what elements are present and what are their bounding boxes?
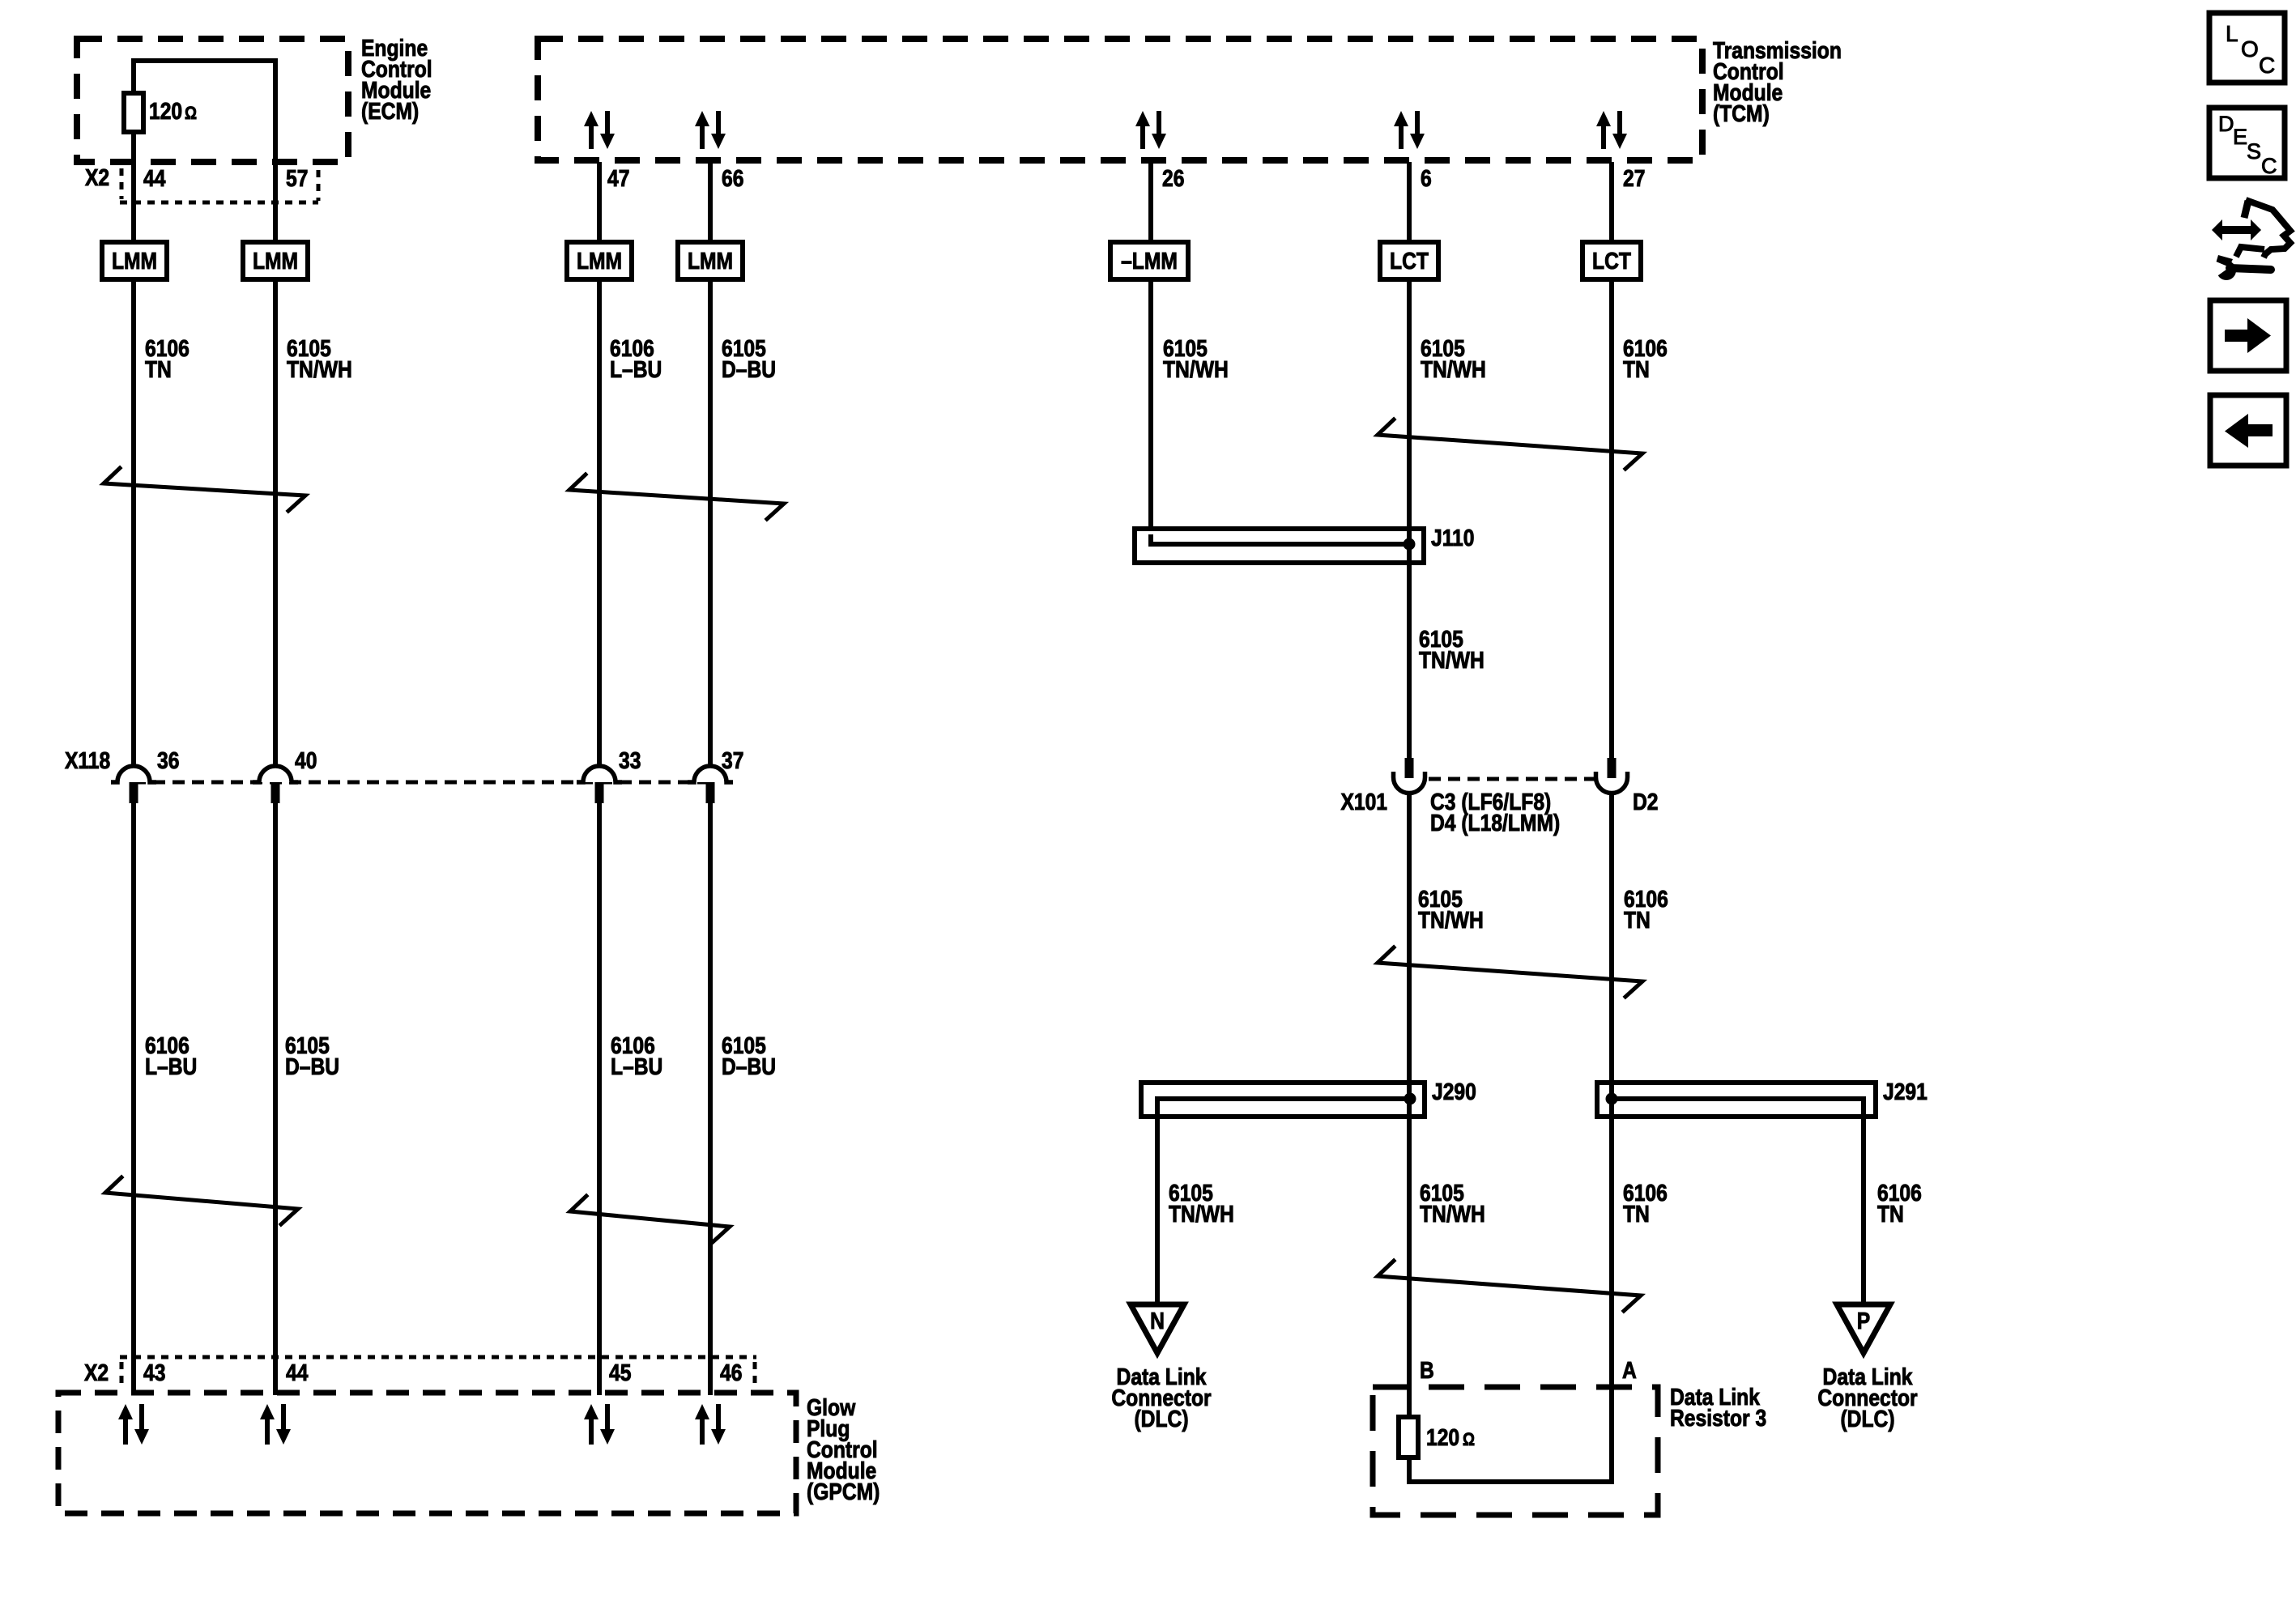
splice J110 bar (1135, 529, 1424, 563)
svg-text:(DLC): (DLC) (1840, 1406, 1894, 1432)
svg-text:40: 40 (295, 747, 317, 773)
twisted pair symbol w1-w2 lower (105, 1177, 298, 1224)
svg-text:D: D (2218, 112, 2234, 136)
wire w6 through J110 (1407, 526, 1412, 566)
junction dot J290 (1404, 1093, 1416, 1105)
svg-text:–LMM: –LMM (1121, 248, 1178, 274)
LMM box on wire 66 (678, 242, 743, 279)
wire w6 through J290 (1407, 1080, 1412, 1120)
svg-text:26: 26 (1162, 165, 1184, 191)
svg-text:L–BU: L–BU (610, 356, 662, 382)
diagnostic icon double arrow (2212, 219, 2261, 240)
svg-text:A: A (1622, 1357, 1637, 1383)
svg-text:46: 46 (720, 1360, 742, 1385)
serial data arrows at TCM pin 6 (1399, 125, 1404, 149)
svg-text:P: P (1857, 1308, 1870, 1334)
wire 6105 D-BU: TCM pin66 to X118 pin37 (708, 162, 713, 769)
wire inside J110 (1151, 534, 1409, 544)
svg-text:44: 44 (143, 165, 165, 191)
svg-text:LMM: LMM (253, 248, 298, 274)
svg-text:B: B (1420, 1357, 1434, 1383)
svg-text:37: 37 (722, 747, 743, 773)
wire w7: X101 to J291 (1609, 792, 1614, 1085)
LMM box on wire 57 (243, 242, 308, 279)
svg-text:J110: J110 (1431, 525, 1474, 551)
svg-text:44: 44 (286, 1360, 308, 1385)
svg-text:TN: TN (1623, 1201, 1650, 1227)
svg-text:TN/WH: TN/WH (1420, 1201, 1485, 1227)
connector X118 dashed line (134, 781, 710, 785)
X118 connector halves pin 33 (577, 766, 622, 782)
wire w7: J291 to DLR3 (1609, 1117, 1614, 1484)
svg-text:TN/WH: TN/WH (1163, 356, 1229, 382)
svg-text:TN: TN (1624, 907, 1651, 933)
X101 connector halves wire 27 (D2) (1596, 772, 1628, 794)
svg-text:L: L (2226, 21, 2238, 46)
wire: DLR3 resistor to bottom rail (1407, 1456, 1412, 1484)
wire 6105 TN/WH: TCM pin6 down to DLR3 resistor (1407, 162, 1412, 758)
svg-text:X2: X2 (85, 164, 109, 190)
svg-text:L–BU: L–BU (145, 1053, 197, 1079)
wire w1: X118 to GPCM 43 (131, 802, 136, 1395)
svg-text:D–BU: D–BU (722, 356, 776, 382)
svg-text:O: O (2241, 36, 2259, 62)
DLC connector triangle P (1837, 1304, 1890, 1353)
serial data arrows at TCM pin 27 (1601, 125, 1606, 149)
svg-text:C: C (2259, 53, 2275, 78)
svg-text:66: 66 (722, 165, 743, 191)
svg-text:43: 43 (143, 1360, 165, 1385)
wire w9: J291 to DLC P (1861, 1117, 1866, 1304)
wire w2: X118 to GPCM 44 (273, 802, 278, 1395)
svg-text:N: N (1150, 1308, 1165, 1334)
serial data arrows at GPCM pin 45 (589, 1418, 594, 1445)
junction dot J291 (1606, 1093, 1618, 1105)
svg-text:LMM: LMM (577, 248, 622, 274)
X118 connector halves pin 37 (688, 766, 733, 782)
svg-text:TN/WH: TN/WH (1418, 907, 1484, 933)
svg-text:LMM: LMM (112, 248, 157, 274)
TCM module box (538, 39, 1702, 160)
svg-text:57: 57 (286, 165, 308, 191)
serial data arrows at TCM pin 26 (1140, 125, 1145, 149)
serial data arrows at GPCM pin 46 (700, 1418, 705, 1445)
X101 connector halves wire 6 (1394, 772, 1425, 794)
svg-text:45: 45 (609, 1360, 631, 1385)
serial data arrows at TCM pin 66 (700, 125, 705, 149)
twisted pair symbol w6-w7 upper (1378, 419, 1642, 469)
twisted pair symbol w3-w4 upper (569, 474, 784, 519)
svg-text:D4 (L18/LMM): D4 (L18/LMM) (1430, 810, 1560, 836)
svg-text:120: 120 (149, 98, 182, 124)
svg-text:Resistor 3: Resistor 3 (1670, 1405, 1766, 1431)
svg-text:C: C (2261, 154, 2277, 178)
serial data arrows at TCM pin 47 (589, 125, 594, 149)
connector X2 band (GPCM) dotted line (120, 1355, 756, 1360)
diagnostic icon outline (2244, 201, 2248, 218)
svg-text:TN: TN (145, 356, 172, 382)
wire 6106 TN: TCM pin47 to X118 pin33 (597, 162, 602, 769)
svg-text:LCT: LCT (1592, 248, 1631, 274)
LMM box on wire 44 (102, 242, 167, 279)
icon box LOC (2209, 13, 2285, 83)
wire w4: X118 to GPCM 46 (708, 802, 713, 1395)
svg-text:D2: D2 (1633, 789, 1659, 815)
serial data arrows at GPCM pin 43 (123, 1418, 128, 1445)
ECM module box (77, 39, 348, 162)
X101 dashed line (1409, 777, 1612, 781)
svg-text:E: E (2233, 125, 2247, 149)
resistor 120 ohm (DLR3) (1399, 1417, 1418, 1457)
LMM box on wire 47 (567, 242, 632, 279)
diagnostic icon bracket (2236, 247, 2264, 257)
wire w6: J290 to DLR3 (1407, 1117, 1412, 1419)
svg-text:X101: X101 (1340, 789, 1387, 815)
svg-text:Ω: Ω (185, 104, 197, 124)
svg-text:33: 33 (619, 747, 641, 773)
wire w6: J110 to X101 (1407, 547, 1412, 758)
svg-text:D–BU: D–BU (722, 1053, 776, 1079)
wire: DLR3 bottom rail (1407, 1479, 1614, 1484)
svg-text:J290: J290 (1432, 1079, 1476, 1104)
DLC connector triangle N (1131, 1304, 1184, 1353)
icon box back arrow (2210, 395, 2286, 466)
wire 6105 TN/WH: TCM pin26 to J110 (1148, 162, 1153, 547)
wire inside J290 to DLC drop (1157, 1099, 1409, 1120)
LCT box on wire 27 (1582, 242, 1641, 279)
splice J290 bar (1141, 1083, 1425, 1117)
wire: resistor to X118 pin 36 (131, 132, 136, 769)
wire w7 through J291 (1609, 1080, 1614, 1120)
twisted pair symbol w3-w4 lower (570, 1196, 730, 1242)
svg-text:(DLC): (DLC) (1134, 1406, 1188, 1432)
LCT box on wire 6 (1380, 242, 1438, 279)
GPCM module box (58, 1393, 796, 1513)
-LMM box on wire 26 (1110, 242, 1188, 279)
svg-text:TN: TN (1623, 356, 1650, 382)
svg-text:(ECM): (ECM) (361, 98, 419, 124)
wire w3: X118 to GPCM 45 (597, 802, 602, 1395)
icon box forward arrow (2210, 300, 2286, 371)
svg-text:36: 36 (157, 747, 179, 773)
diagnostic icon wrench (2217, 261, 2236, 280)
wire inside J291 to DLC drop (1612, 1099, 1864, 1120)
serial data arrows at GPCM pin 44 (265, 1418, 270, 1445)
X118 connector halves pin 40 (253, 766, 298, 782)
svg-text:D–BU: D–BU (285, 1053, 339, 1079)
resistor 120 ohm (ECM terminating) (124, 93, 143, 132)
svg-text:S: S (2247, 139, 2261, 164)
junction dot J110 (1404, 538, 1416, 551)
svg-text:27: 27 (1623, 165, 1645, 191)
svg-text:TN/WH: TN/WH (1419, 647, 1485, 673)
connector X2 band (ECM) dotted line (120, 201, 318, 205)
svg-text:47: 47 (607, 165, 629, 191)
svg-text:J291: J291 (1883, 1079, 1928, 1104)
wire w8: J290 to DLC N (1155, 1117, 1160, 1304)
twisted pair symbol w1-w2 upper (104, 468, 305, 511)
wire: ECM pin 57 to X118 pin 40 (273, 61, 278, 769)
svg-text:Ω: Ω (1463, 1431, 1475, 1450)
svg-text:(TCM): (TCM) (1713, 100, 1770, 126)
icon box DESC (2209, 108, 2285, 178)
svg-text:6: 6 (1421, 165, 1432, 191)
wire: ECM internal loop top (131, 58, 278, 63)
twisted pair symbol w6-w7 lower (1378, 1261, 1641, 1311)
twisted pair symbol w6-w7 mid (1378, 947, 1642, 997)
wire 6106 TN: TCM pin27 down (1609, 162, 1614, 758)
wire w6: X101 to J290 (1407, 792, 1412, 1085)
splice J291 bar (1597, 1083, 1876, 1117)
svg-text:LMM: LMM (688, 248, 733, 274)
X118 connector halves pin 36 (111, 766, 156, 782)
svg-text:L–BU: L–BU (611, 1053, 662, 1079)
svg-text:X2: X2 (84, 1360, 109, 1385)
svg-text:TN/WH: TN/WH (287, 356, 352, 382)
svg-text:X118: X118 (65, 747, 110, 773)
svg-text:120: 120 (1426, 1424, 1459, 1450)
svg-text:LCT: LCT (1390, 248, 1429, 274)
wire: ECM pin 44 drop to resistor (131, 58, 136, 94)
svg-text:TN/WH: TN/WH (1169, 1201, 1234, 1227)
svg-text:TN: TN (1877, 1201, 1904, 1227)
svg-text:TN/WH: TN/WH (1421, 356, 1486, 382)
Data Link Resistor 3 box (1373, 1387, 1658, 1515)
svg-text:(GPCM): (GPCM) (807, 1479, 880, 1504)
